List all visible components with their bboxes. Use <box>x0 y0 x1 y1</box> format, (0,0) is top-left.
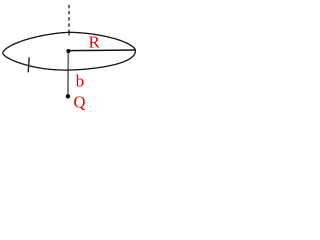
wire: radius line R from center to right edge <box>68 49 135 52</box>
tick mark on lower-left arc of ring <box>28 57 29 72</box>
ring (loop outline) <box>3 32 136 70</box>
wire: dashed axis line above ring <box>68 5 70 29</box>
wire: gray segment b from ring center to point Q <box>67 51 69 94</box>
wire: axis stub crossing ring top <box>68 30 70 36</box>
svg-text:Q: Q <box>74 93 86 112</box>
svg-text:R: R <box>89 32 100 51</box>
node Q: field point dot <box>66 94 70 98</box>
node: ring center dot <box>66 49 70 53</box>
svg-text:b: b <box>76 71 85 90</box>
